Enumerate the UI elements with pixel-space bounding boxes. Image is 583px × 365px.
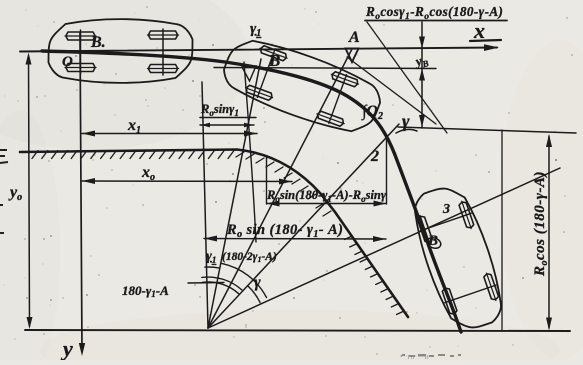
- extension vertical x=505: [501, 130, 503, 330]
- car3 rear axle: [445, 285, 496, 303]
- car3 wheel 1: [459, 202, 474, 227]
- svg-text:γ: γ: [402, 111, 410, 131]
- car1 wheel 1: [66, 32, 95, 40]
- leader D2 from A marker: [347, 57, 436, 124]
- curb hatching: [32, 151, 404, 315]
- car position 3 body: [415, 189, 501, 328]
- svg-text:2: 2: [370, 148, 379, 165]
- angle double arc 180-g1-A: [202, 282, 238, 294]
- svg-text:Ro sin (180- γ1- A): Ro sin (180- γ1- A): [226, 222, 343, 240]
- svg-text:B.: B.: [90, 34, 106, 51]
- extension vertical x=386.5: [386, 140, 388, 204]
- svg-text:x: x: [473, 18, 485, 43]
- fan ray to A: [208, 49, 352, 328]
- yB dimension vertical at x=422: [421, 22, 423, 128]
- angle arc 180-2g1-A: [222, 263, 267, 297]
- car1 wheel 2: [66, 64, 95, 72]
- car1 wheel 4: [149, 65, 178, 73]
- dimension line R0sin(180-g1-A)-R0sin g: [267, 203, 387, 205]
- car2 wheel 3: [332, 72, 357, 87]
- car1 wheel 3: [149, 31, 178, 39]
- car3 front axle: [420, 213, 471, 231]
- svg-text:3: 3: [442, 202, 450, 217]
- svg-text:Rosin(180-γ1-A)-Rosinγ: Rosin(180-γ1-A)-Rosinγ: [266, 188, 387, 204]
- R0 sin gamma1 label underline: [200, 117, 256, 119]
- extension line through car2 wheel down: [244, 62, 256, 242]
- bottom faint smudge: [402, 354, 461, 357]
- svg-text:180-γ1-A: 180-γ1-A: [122, 283, 169, 299]
- extension vertical x=266.5: [266, 156, 268, 204]
- svg-text:Rosinγ1: Rosinγ1: [200, 102, 239, 118]
- faint bottom edge marks: [400, 352, 431, 361]
- small arc at gamma (upper right): [396, 129, 417, 133]
- point A marker triangle: [346, 49, 359, 63]
- R0 sin gamma1 dimension line: [200, 124, 254, 126]
- leader line from 180-g1-A label: [188, 282, 224, 285]
- car2 wheel 1: [261, 46, 286, 61]
- x1 dimension line: [82, 133, 257, 135]
- faint scan tone blotches: [0, 0, 250, 150]
- car2 rear axle: [257, 49, 275, 98]
- fan ray to gamma vertex: [208, 124, 399, 328]
- car3 wheel 3: [484, 274, 499, 300]
- fan ray to B2: [208, 59, 261, 328]
- x axis line: [20, 48, 497, 52]
- angle arc gamma (lower): [248, 286, 261, 303]
- fan ray vertical (origin to car2 underside): [202, 82, 208, 328]
- thick trajectory of point B: [42, 51, 461, 332]
- car2 wheel 4: [318, 111, 343, 126]
- dimension line R0cos(180-g-A): [548, 136, 550, 328]
- car2 marker flag 4: [242, 66, 256, 81]
- car3 wheel 4: [442, 288, 457, 313]
- top formula underline: [365, 20, 507, 22]
- svg-text:A: A: [348, 29, 360, 46]
- y0 dimension line: [29, 56, 30, 326]
- x axis label underline: [470, 40, 501, 41]
- fan ray low (gamma lower side): [208, 168, 560, 328]
- car3 wheel 2: [418, 216, 433, 242]
- car position 2 body: [224, 41, 380, 131]
- horizontal line y=128 to right edge: [398, 127, 576, 133]
- left edge scan marks: [0, 150, 8, 233]
- car3 point B oval marker: [426, 236, 443, 250]
- x0 dimension line: [82, 180, 292, 183]
- car1 left axle: [80, 30, 82, 74]
- curb road edge: straight + arc + diagonal: [20, 150, 408, 318]
- horizontal line through B level: [214, 68, 436, 69]
- svg-text:B: B: [268, 51, 280, 70]
- car2 wheel 2: [246, 85, 271, 100]
- svg-text:γ: γ: [254, 274, 261, 291]
- svg-text:B: B: [427, 233, 438, 249]
- angle arc gamma1 (small, near vertical): [205, 267, 220, 268]
- leader D1 from formula: [367, 22, 447, 133]
- dimension line R0 sin(180-g1-A): [204, 238, 386, 241]
- y axis vertical through O: [80, 33, 82, 352]
- svg-text:O: O: [62, 54, 73, 70]
- bottom horizontal line: [25, 330, 570, 331]
- car2 front axle: [329, 75, 347, 124]
- svg-text:(180-2γ1-A): (180-2γ1-A): [222, 251, 277, 264]
- car position 1 body: [49, 19, 193, 83]
- car1 right axle: [162, 29, 164, 75]
